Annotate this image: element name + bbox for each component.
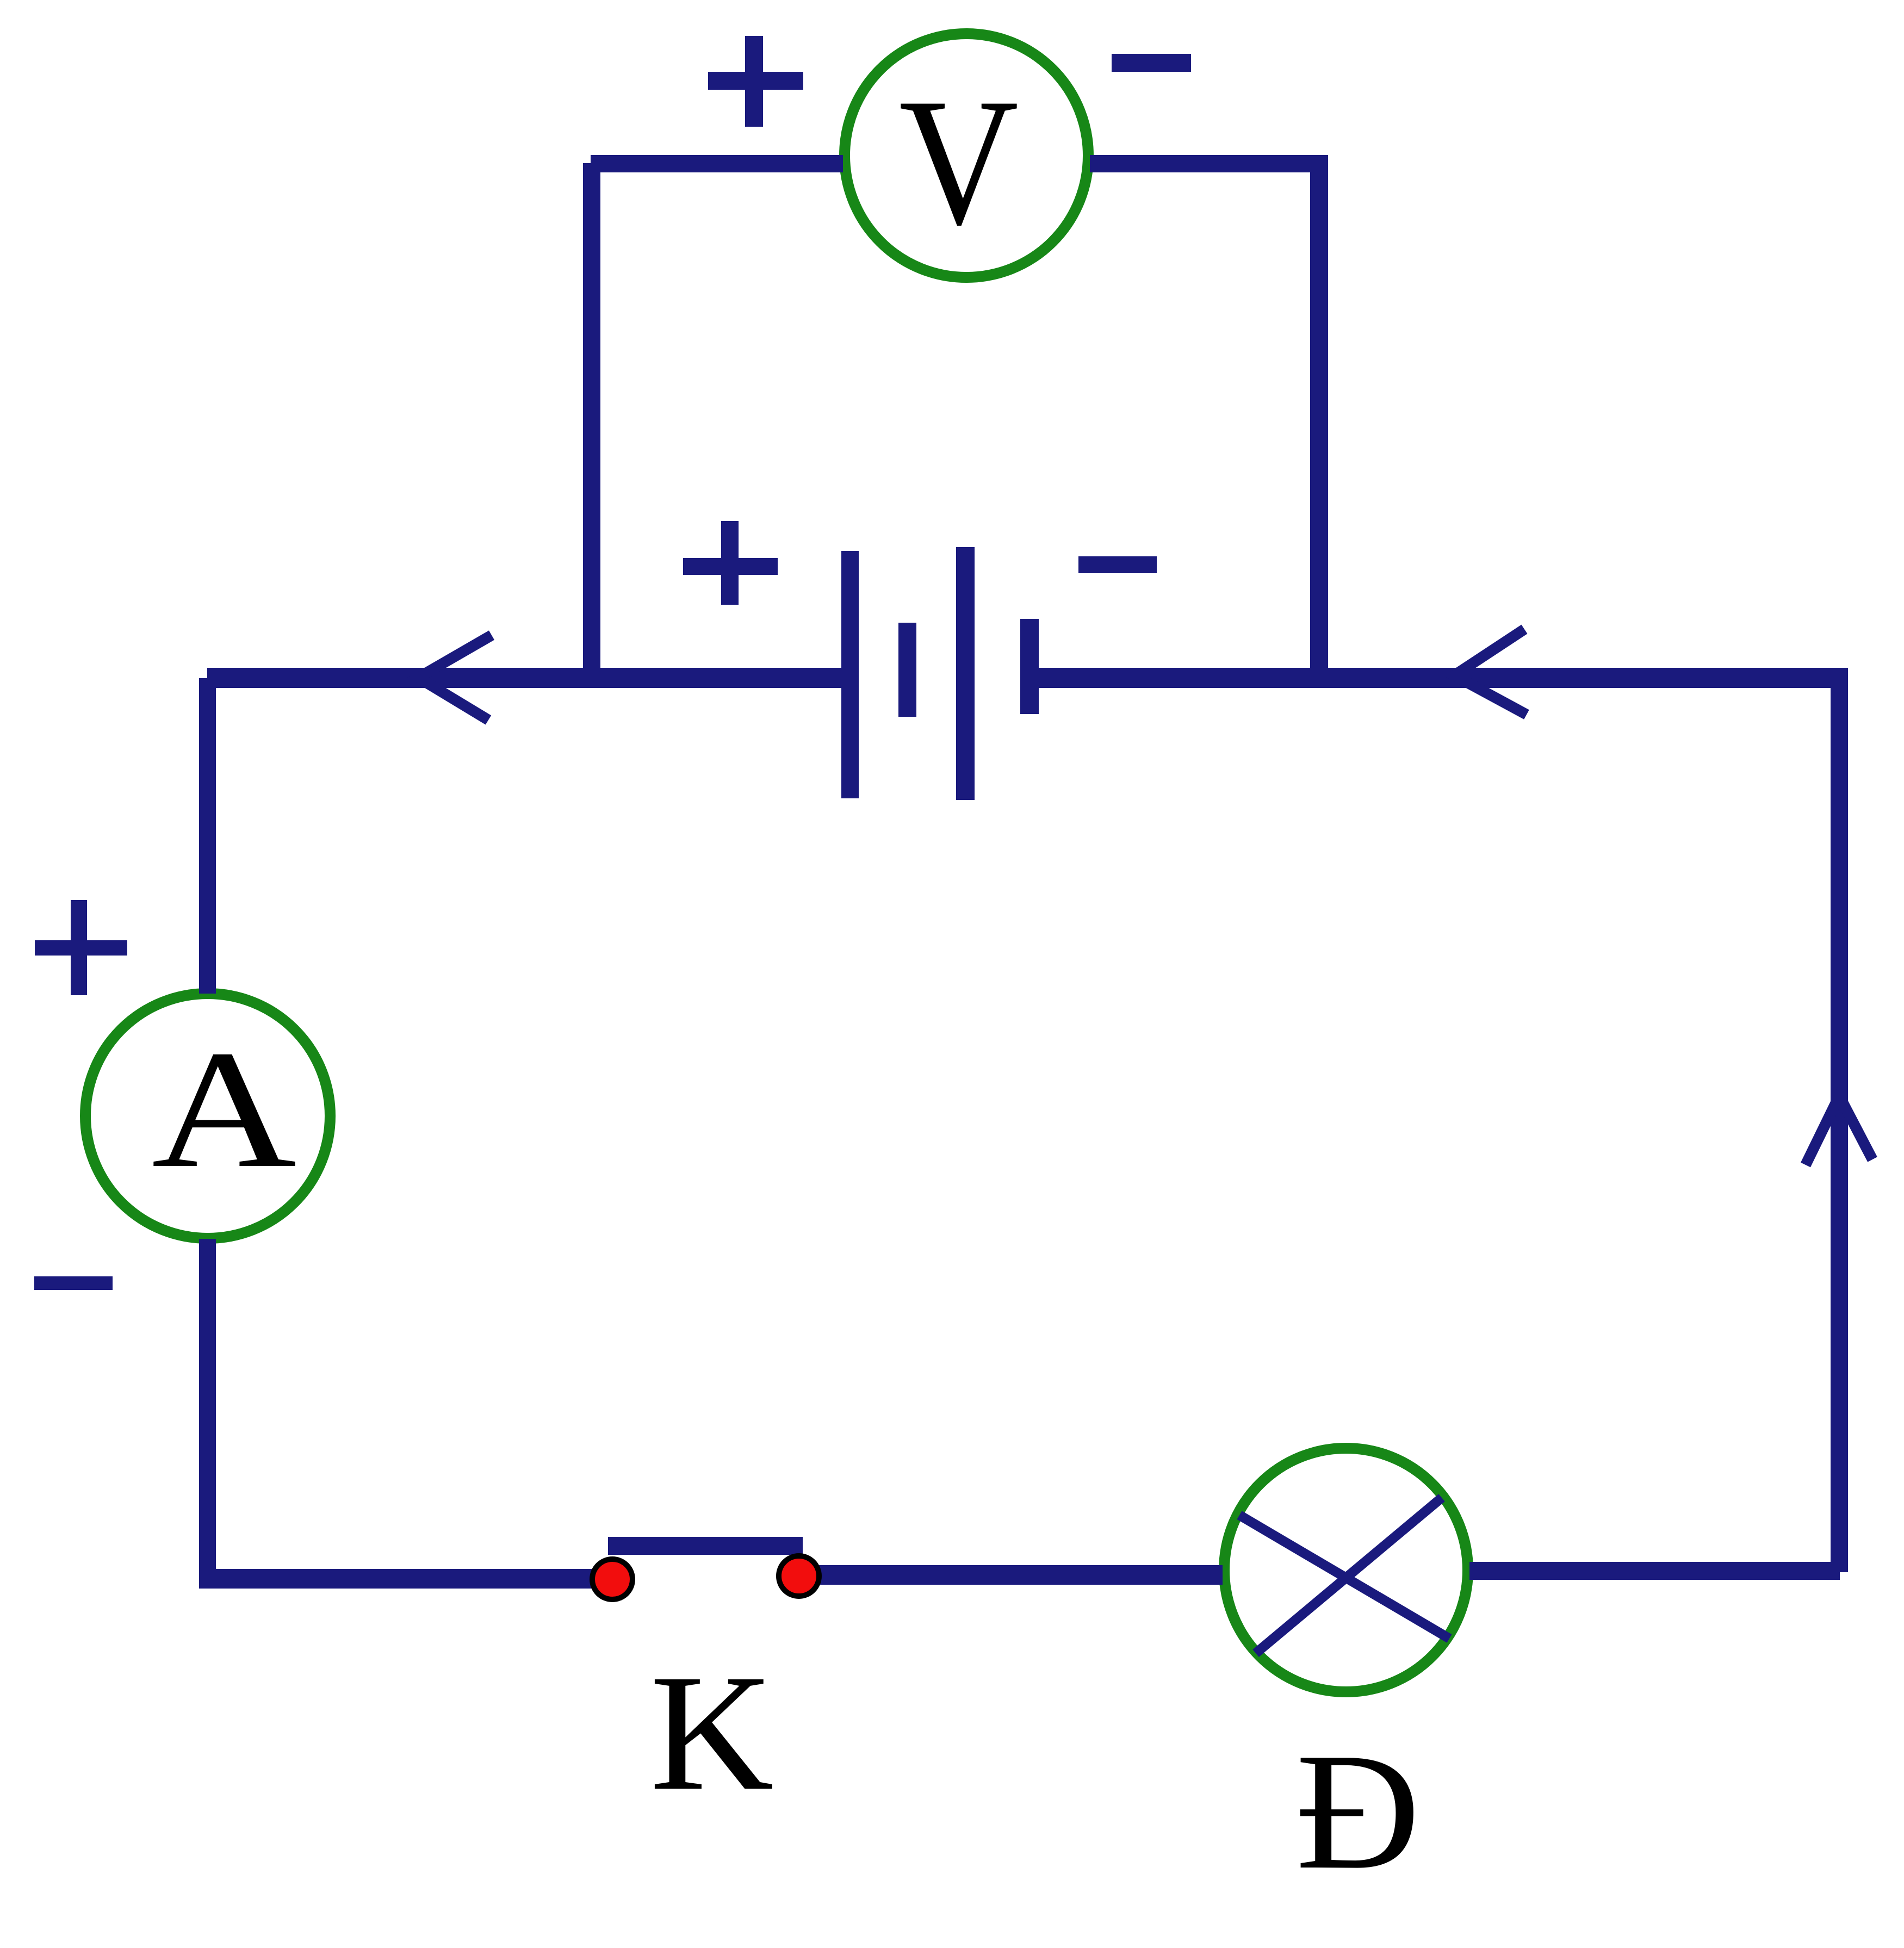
wire bottom left (to switch) [199,1569,598,1589]
wire bottom right (lamp to corner) [1469,1562,1840,1580]
lamp X stroke 2 [1256,1498,1442,1653]
minus sign of battery [1078,556,1157,573]
battery short plate 1 [898,623,916,717]
battery long plate 2 (+) [956,547,975,800]
wire middle horizontal right (battery - side) [1029,668,1848,688]
battery short plate 2 (-) [1020,619,1039,714]
svg-text:V: V [899,61,1019,263]
current arrow on right vertical wire [1806,1096,1872,1165]
plus sign of ammeter [35,900,127,995]
current arrow on middle wire, right segment [1454,629,1527,715]
switch bar of K [608,1537,803,1555]
voltmeter V circle [845,34,1088,277]
svg-text:A: A [152,1015,297,1202]
lamp X stroke 1 [1239,1515,1449,1639]
wire bottom middle (switch to lamp) [813,1565,1223,1585]
minus sign of ammeter [34,1276,113,1290]
wire right vertical of voltmeter loop [1310,163,1328,688]
ammeter A circle [85,994,330,1238]
wire top-left horizontal (voltmeter loop) [591,155,843,172]
wire top-right horizontal (voltmeter loop) [1090,155,1328,172]
svg-text:Đ: Đ [1295,1718,1420,1904]
battery long plate 1 (+) [841,551,859,798]
plus sign of battery [683,521,778,605]
minus sign of voltmeter [1112,54,1191,72]
switch contact dot left [592,1559,632,1599]
svg-text:K: K [650,1640,774,1825]
wire middle horizontal left (battery + side) [207,668,850,688]
wire left vertical of voltmeter loop [583,163,600,688]
wire left vertical, middle wire to ammeter [199,678,216,994]
plus sign of voltmeter [708,36,803,127]
wire right vertical (lamp corner to middle wire) [1831,678,1848,1572]
current arrow on middle wire, left segment [418,635,492,720]
lamp D circle [1224,1448,1468,1692]
wire left vertical, ammeter to bottom wire [199,1239,216,1589]
switch contact dot right [779,1556,819,1596]
